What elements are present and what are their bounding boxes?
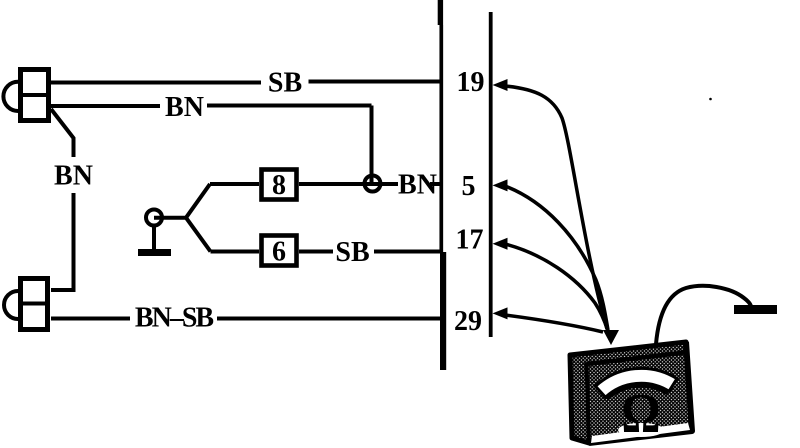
- svg-text:SB: SB: [268, 68, 302, 99]
- svg-text:29: 29: [454, 306, 482, 337]
- svg-text:SB: SB: [335, 237, 369, 268]
- svg-text:17: 17: [456, 225, 484, 256]
- svg-text:BN–SB: BN–SB: [135, 303, 213, 334]
- svg-text:5: 5: [462, 171, 476, 202]
- svg-text:Ω: Ω: [621, 383, 660, 445]
- svg-text:BN: BN: [54, 161, 93, 192]
- svg-text:8: 8: [272, 170, 286, 201]
- svg-text:BN: BN: [165, 92, 204, 123]
- svg-text:BN: BN: [398, 170, 437, 201]
- svg-text:19: 19: [457, 67, 485, 98]
- svg-text:6: 6: [272, 237, 286, 268]
